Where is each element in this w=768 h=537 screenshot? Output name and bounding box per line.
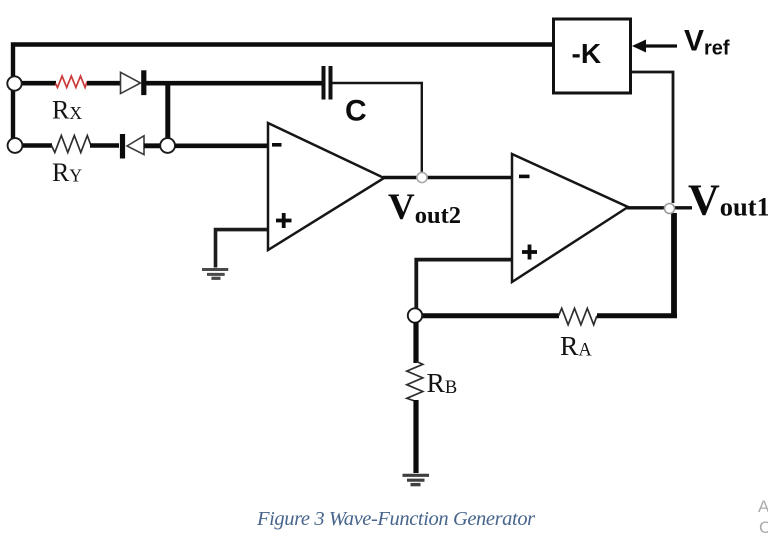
svg-text:A: A [758,497,768,516]
wire RB down to ground [413,400,418,473]
node left upper [7,76,21,90]
U1 minus label [272,143,282,147]
resistor RY (zigzag) [52,136,91,153]
wire row2 lower node to resistor Ry [21,143,52,148]
wire row2 diode to junction node [144,143,161,148]
capacitor C plate right [329,66,333,100]
wire capacitor to U1 output node (thin) [333,83,422,173]
wire row1 diode to capacitor [146,81,322,86]
svg-text:RB: RB [427,367,458,398]
svg-text:RX: RX [52,96,82,125]
capacitor C plate left [322,66,326,100]
U1 plus label [276,213,292,228]
wire U2 output to Vout1 [627,206,692,209]
svg-text:C: C [759,518,768,537]
block -K [554,19,631,93]
wire top feedback bus to -K input [13,45,553,146]
node left lower [8,138,23,153]
svg-text:Vout2: Vout2 [388,187,461,229]
resistor RB (vertical zigzag) [407,362,423,402]
svg-text:Vout1: Vout1 [688,176,768,225]
wire row2 resistor to diode D2 [90,143,119,148]
ground G1 [202,270,228,279]
svg-text:RY: RY [52,158,82,187]
wire node down to RB [413,322,418,363]
diode D1 (points right) [121,70,144,95]
node Vout1 [665,204,675,214]
U2 minus label [519,175,530,179]
wire -K output down to Vout1 node [631,72,673,203]
svg-text:C: C [345,95,367,128]
node row2 junction [160,138,175,153]
wire U1 non-inverting input to ground [216,230,268,268]
wire feedback node to RA [420,313,559,318]
svg-text:Figure 3 Wave-Function Generat: Figure 3 Wave-Function Generator [256,508,536,530]
wire U1 output to U2 inverting input [383,176,512,179]
arrow Vref into -K [632,40,677,53]
wire row1 upper node to resistor Rx [20,81,56,86]
svg-text:-K: -K [572,38,602,69]
node Vout2 [417,172,427,182]
wire row1 resistor to diode D1 [87,81,121,86]
op-amp U2 [512,154,628,282]
wire U2 non-inverting input to feedback node [416,260,512,310]
svg-text:RA: RA [560,330,592,361]
ground G2 [403,475,430,484]
wire Vout1 node down to RA (thick) [671,213,677,318]
U2 plus label [522,245,537,260]
wire RA to Vout1 branch [597,313,677,318]
op-amp U1 [268,123,384,250]
svg-text:Vref: Vref [684,25,730,60]
resistor RX (red zigzag) [56,76,88,88]
resistor RA (zigzag) [559,308,597,325]
wire junction vertical row1 to row2 [165,83,170,138]
wire row2 node to op-amp U1 inverting input [175,144,267,149]
node RB junction [408,308,422,322]
diode D2 (points left) [123,134,145,159]
